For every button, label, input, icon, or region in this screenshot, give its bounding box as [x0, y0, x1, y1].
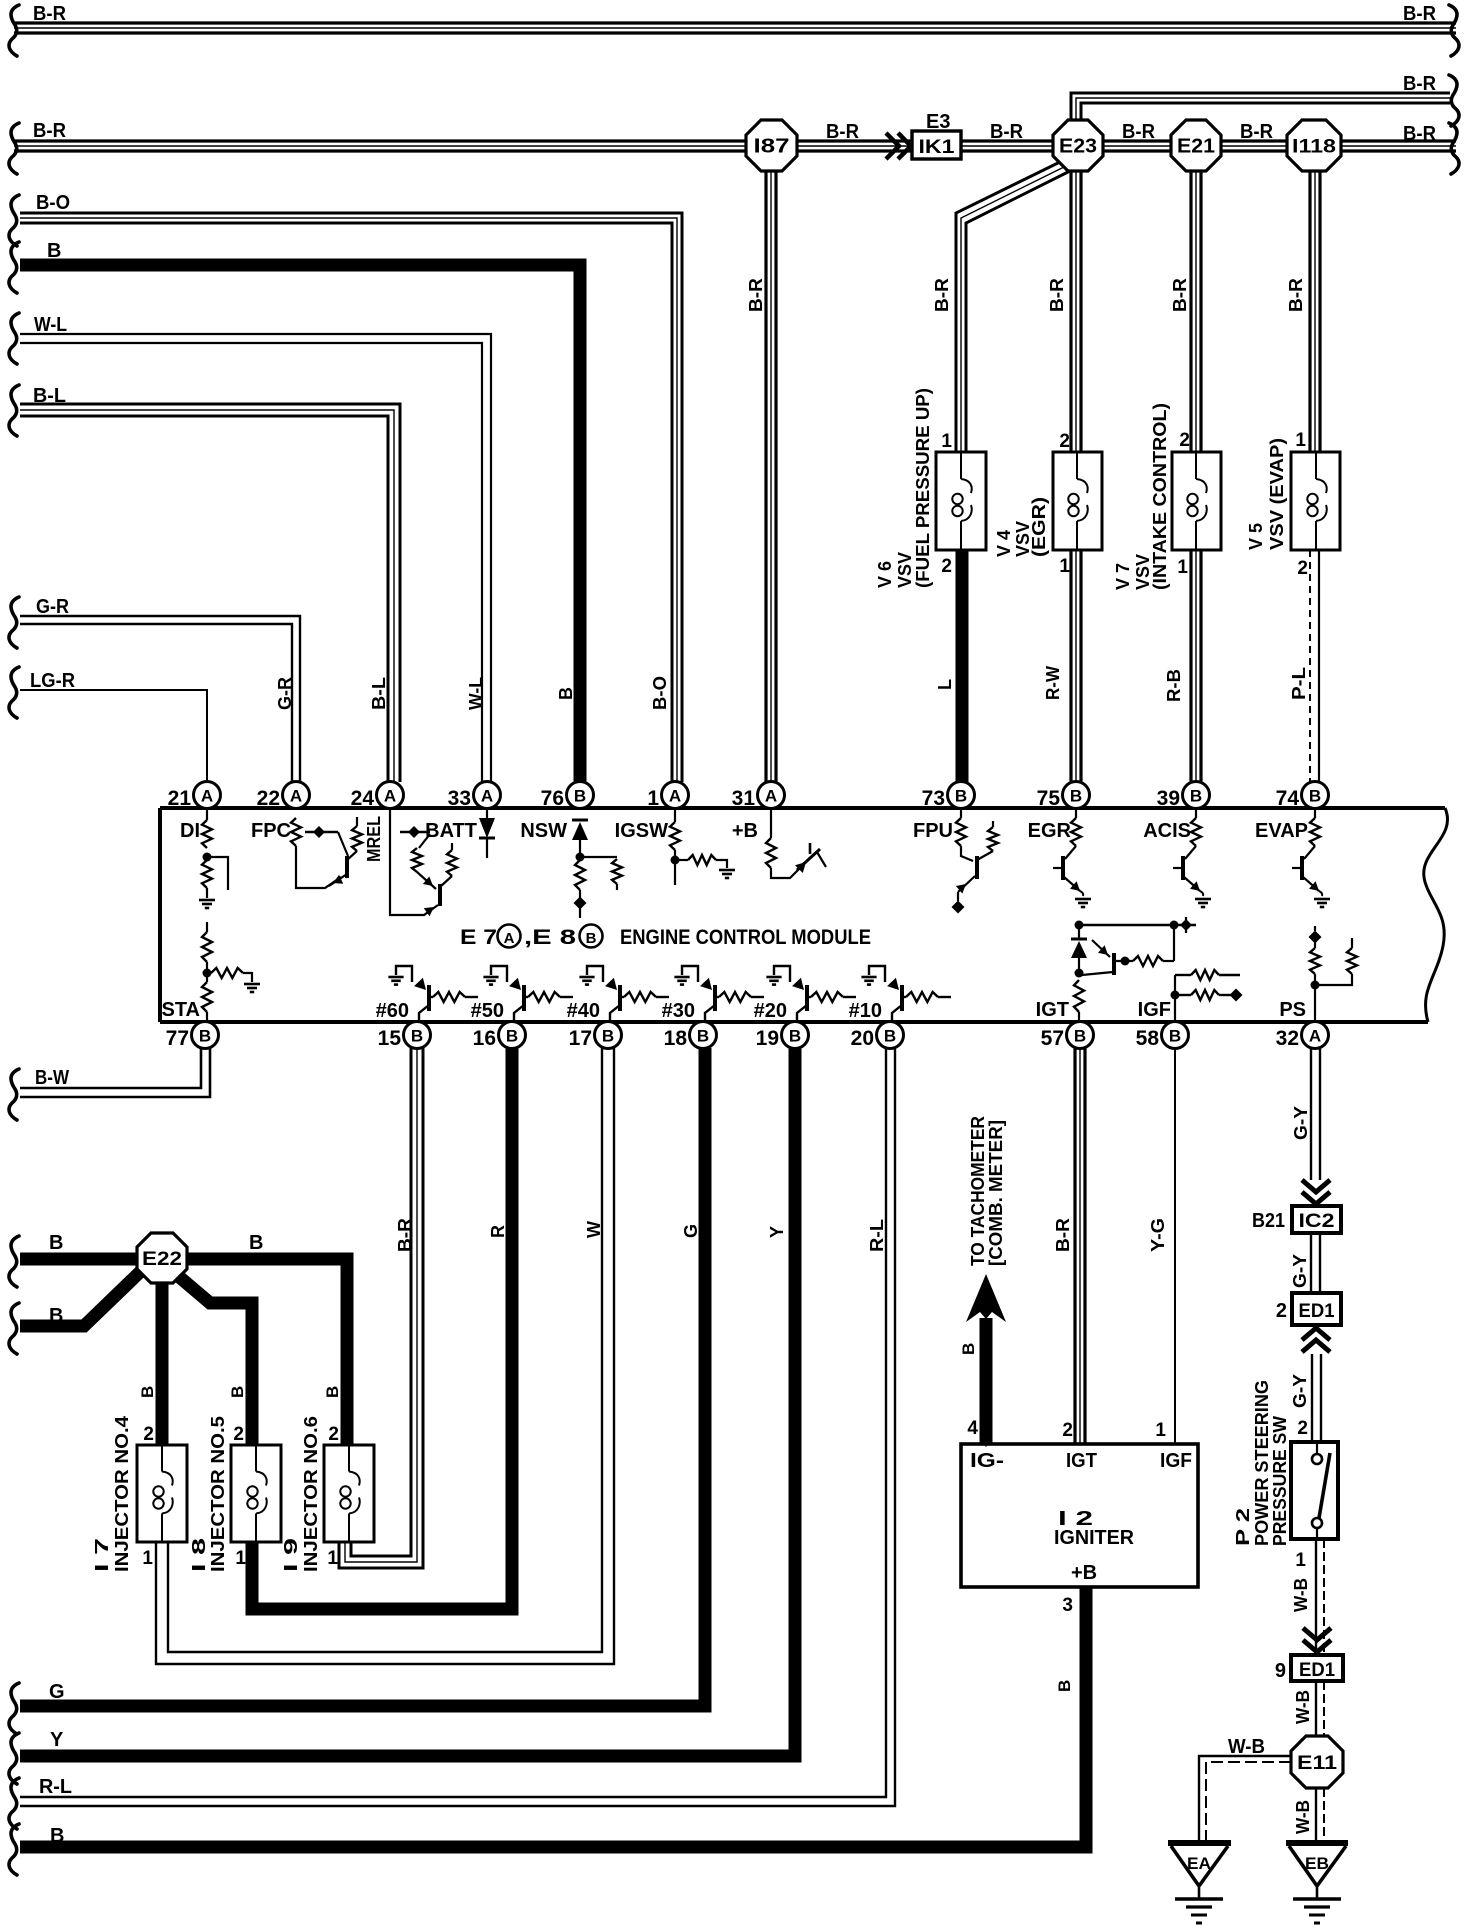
wire B from E22 down to injector no4 — [156, 1282, 169, 1445]
VSV V7 box (intake control) — [1172, 452, 1221, 550]
svg-text:58: 58 — [1136, 1027, 1160, 1050]
wire B from E22 to injector no6 — [184, 1259, 347, 1445]
wire B bottom to igniter pin3 — [20, 1588, 1086, 1847]
svg-text:B-R: B-R — [1122, 121, 1156, 143]
svg-text:B-W: B-W — [35, 1067, 69, 1089]
wire IG- stub inside — [985, 1444, 987, 1447]
svg-text:B: B — [789, 1027, 801, 1046]
svg-text:B-R: B-R — [33, 3, 67, 25]
svg-text:B-R: B-R — [1240, 121, 1274, 143]
svg-text:B-R: B-R — [746, 278, 766, 312]
svg-text:1: 1 — [142, 1548, 153, 1569]
injector no5 box I8 — [231, 1445, 281, 1542]
svg-text:B-R: B-R — [1170, 278, 1190, 312]
svg-text:W-B: W-B — [1228, 1736, 1265, 1758]
svg-text:B: B — [1070, 787, 1082, 806]
ECM torn right edge — [1424, 808, 1448, 1022]
svg-text:16: 16 — [473, 1027, 496, 1050]
ECM MREL resistor — [352, 826, 362, 851]
wire G pin18 to bottom left — [20, 1048, 705, 1706]
brace B-W — [9, 1069, 19, 1120]
connector E11 — [1291, 1736, 1343, 1788]
wire B-R drop E23 to V4 — [1069, 168, 1072, 452]
wire W pin17 to injector no4 — [156, 1048, 614, 1664]
svg-text:ACIS: ACIS — [1143, 820, 1191, 842]
svg-text:22: 22 — [257, 787, 280, 810]
svg-text:G-R: G-R — [275, 677, 295, 710]
svg-text:B: B — [228, 1386, 247, 1398]
ECM pin 22 (A) top — [283, 782, 310, 809]
svg-text:B-L: B-L — [33, 385, 66, 407]
wire B to E22 left — [20, 1253, 140, 1266]
ground point EA — [1168, 1840, 1231, 1846]
VSV V7 coil — [1195, 452, 1197, 479]
wire G-R — [20, 616, 300, 782]
svg-text:I 8: I 8 — [189, 1538, 209, 1572]
VSV V5 coil — [1315, 452, 1317, 479]
svg-text:#40: #40 — [567, 1000, 600, 1022]
svg-text:BATT: BATT — [425, 820, 477, 842]
svg-text:P 2: P 2 — [1233, 1508, 1253, 1546]
svg-text:R-B: R-B — [1164, 669, 1184, 702]
svg-text:EVAP: EVAP — [1255, 820, 1308, 842]
svg-text:B-R: B-R — [1286, 278, 1306, 312]
connector I87 — [746, 120, 797, 171]
ECM pin 21 (A) top — [194, 782, 221, 809]
chevron arrows to E3 — [886, 133, 899, 159]
svg-text:FPC: FPC — [251, 820, 291, 842]
ECM pin 58 (B) bottom — [1162, 1022, 1189, 1049]
wire B-W — [20, 1048, 201, 1088]
svg-text:INJECTOR NO.5: INJECTOR NO.5 — [208, 1416, 228, 1572]
svg-text:75: 75 — [1037, 787, 1061, 810]
svg-text:1: 1 — [1295, 1550, 1306, 1571]
wire B lower-left to E22 — [20, 1272, 140, 1326]
brace B E22 — [9, 1236, 19, 1287]
svg-text:W-B: W-B — [1291, 1578, 1311, 1612]
connector I118 — [1287, 120, 1341, 171]
wire Y pin19 to bottom left — [20, 1048, 795, 1756]
wire B-R pin15 to injector no6 — [339, 1048, 423, 1568]
svg-text:B-R: B-R — [1047, 278, 1067, 312]
svg-text:W-L: W-L — [34, 314, 67, 336]
wire Y-G pin58 to igniter IGF — [1174, 1048, 1176, 1444]
wire R-L pin20 to bottom left — [20, 1048, 886, 1797]
svg-text:39: 39 — [1157, 787, 1180, 810]
wire B-R upper right bus from E23 — [1071, 93, 1450, 122]
svg-text:IGT: IGT — [1036, 999, 1069, 1021]
connector E21 — [1171, 120, 1221, 171]
brace row right — [1449, 123, 1459, 174]
svg-text:B: B — [138, 1386, 157, 1398]
wire W-L — [20, 334, 491, 782]
brace bus1 left — [9, 5, 19, 56]
svg-text:E11: E11 — [1297, 1753, 1338, 1774]
svg-text:VSV: VSV — [895, 552, 915, 588]
svg-text:ED1: ED1 — [1299, 1301, 1335, 1322]
svg-text:B-R: B-R — [1053, 1218, 1073, 1252]
svg-text:B-R: B-R — [826, 121, 860, 143]
connector E22 — [137, 1233, 187, 1283]
svg-text:18: 18 — [664, 1027, 688, 1050]
ECM pin 19 (B) bottom — [782, 1022, 809, 1049]
svg-text:W-B: W-B — [1293, 1690, 1313, 1724]
svg-text:STA: STA — [161, 999, 200, 1021]
svg-text:B: B — [574, 787, 586, 806]
svg-text:A: A — [1309, 1027, 1321, 1046]
svg-text:#60: #60 — [376, 1000, 409, 1022]
svg-text:P-L: P-L — [1289, 667, 1309, 700]
svg-text:B: B — [249, 1232, 263, 1254]
svg-text:B: B — [199, 1027, 211, 1046]
svg-text:ENGINE CONTROL MODULE: ENGINE CONTROL MODULE — [620, 926, 871, 949]
svg-text:21: 21 — [168, 787, 192, 810]
brace B-L — [9, 385, 19, 436]
svg-text:Y-G: Y-G — [1148, 1218, 1168, 1252]
svg-text:[COMB. METER]: [COMB. METER] — [986, 1120, 1006, 1266]
svg-text:INJECTOR NO.6: INJECTOR NO.6 — [301, 1416, 321, 1572]
ECM box outline — [160, 806, 1445, 810]
connector box IC2 — [1292, 1206, 1341, 1233]
svg-text:B: B — [47, 240, 61, 262]
svg-text:B: B — [556, 687, 576, 700]
ECM pin 77 (B) bottom — [192, 1022, 219, 1049]
wire P-L V5 to pin 74 — [1309, 550, 1311, 782]
svg-text:74: 74 — [1276, 787, 1300, 810]
wire G-Y IC2 to ED1 — [1310, 1233, 1312, 1293]
svg-text:1: 1 — [1155, 1420, 1166, 1441]
svg-text:2: 2 — [1297, 558, 1308, 579]
svg-text:15: 15 — [378, 1027, 402, 1050]
svg-text:57: 57 — [1041, 1027, 1064, 1050]
ECM pin 76 (B) top — [567, 782, 594, 809]
brace LG-R — [9, 667, 19, 718]
svg-text:R-L: R-L — [867, 1219, 887, 1252]
svg-text:G: G — [49, 1681, 65, 1703]
svg-text:L: L — [935, 679, 955, 690]
svg-text:32: 32 — [1276, 1027, 1299, 1050]
connector box ED1 pin9 — [1291, 1655, 1343, 1681]
wire B from E22 diagonal to injector no5 — [177, 1275, 252, 1445]
svg-text:G-R: G-R — [36, 596, 69, 618]
svg-text:PRESSURE SW: PRESSURE SW — [1270, 1416, 1290, 1546]
svg-text:#50: #50 — [471, 1000, 504, 1022]
svg-text:#10: #10 — [849, 1000, 882, 1022]
injector no6 box I9 — [324, 1445, 374, 1542]
svg-text:W-L: W-L — [466, 677, 486, 710]
svg-text:1: 1 — [647, 787, 659, 810]
brace W-L — [9, 313, 19, 364]
svg-text:B: B — [1309, 787, 1321, 806]
wire B-R drop E21 to V7 — [1189, 168, 1192, 452]
wire G-Y pin32 down — [1310, 1048, 1312, 1180]
svg-text:B: B — [1190, 787, 1202, 806]
wire W-B switch to ED1 pin9 — [1315, 1539, 1317, 1655]
svg-text:IGSW: IGSW — [615, 820, 668, 842]
svg-text:ED1: ED1 — [1299, 1660, 1335, 1681]
igniter I2 box — [961, 1444, 1198, 1587]
FPC base feed with junction — [305, 831, 338, 833]
svg-text:B: B — [506, 1027, 518, 1046]
ECM pin 57 (B) bottom — [1067, 1022, 1094, 1049]
injector no4 box I7 — [137, 1445, 187, 1542]
wire B thick — [20, 265, 580, 782]
wire B-R pin57 to igniter IGT — [1073, 1048, 1076, 1444]
svg-text:2: 2 — [1062, 1420, 1073, 1441]
svg-text:R-W: R-W — [1043, 666, 1063, 700]
svg-text:R-L: R-L — [39, 1776, 72, 1798]
svg-text:B: B — [697, 1027, 709, 1046]
wire B-R drop I118 to V5 — [1308, 168, 1311, 452]
svg-text:IGNITER: IGNITER — [1054, 1527, 1135, 1549]
svg-text:B21: B21 — [1252, 1210, 1285, 1232]
svg-text:19: 19 — [756, 1027, 779, 1050]
brace B-O — [9, 195, 19, 246]
svg-text:LG-R: LG-R — [30, 670, 75, 692]
svg-text:G-Y: G-Y — [1290, 1254, 1310, 1288]
svg-text:V 4: V 4 — [994, 530, 1014, 557]
svg-text:(INTAKE CONTROL): (INTAKE CONTROL) — [1150, 403, 1170, 590]
ECM pin 18 (B) bottom — [690, 1022, 717, 1049]
svg-text:A: A — [765, 787, 777, 806]
ECM pin 32 (A) bottom — [1302, 1022, 1329, 1049]
VSV V6 coil — [960, 452, 962, 479]
svg-text:V 7: V 7 — [1113, 563, 1133, 590]
svg-text:B-R: B-R — [1403, 123, 1437, 145]
svg-text:2: 2 — [1276, 1300, 1287, 1322]
svg-text:#30: #30 — [662, 1000, 695, 1022]
brace row left — [9, 123, 19, 174]
svg-text:B: B — [411, 1027, 423, 1046]
VSV V6 box (fuel pressure up) — [936, 452, 986, 550]
svg-text:B: B — [1055, 1680, 1074, 1692]
svg-text:1: 1 — [941, 431, 952, 452]
svg-text:A: A — [669, 787, 681, 806]
svg-text:EB: EB — [1305, 1854, 1329, 1873]
svg-text:2: 2 — [1179, 430, 1190, 451]
brace B bottom — [9, 1824, 19, 1875]
svg-text:+B: +B — [1071, 1562, 1097, 1584]
svg-text:B-R: B-R — [990, 121, 1024, 143]
svg-text:B-R: B-R — [33, 120, 67, 142]
svg-text:33: 33 — [448, 787, 471, 810]
svg-text:1: 1 — [327, 1548, 338, 1569]
chevron arrows down to IC2 — [1302, 1180, 1330, 1192]
wire R-B V7 to pin 39 — [1189, 550, 1192, 782]
svg-text:B-R: B-R — [395, 1218, 415, 1252]
brace Y — [9, 1733, 19, 1784]
brace B lower — [9, 1303, 19, 1354]
svg-text:DI: DI — [180, 820, 200, 842]
svg-text:2: 2 — [1297, 1418, 1308, 1439]
svg-text:IC2: IC2 — [1299, 1211, 1335, 1232]
svg-text:31: 31 — [732, 787, 756, 810]
svg-text:A: A — [201, 787, 213, 806]
svg-text:B-R: B-R — [932, 278, 952, 312]
svg-text:I87: I87 — [754, 136, 790, 158]
svg-text:24: 24 — [351, 787, 375, 810]
wire G-Y ED1 to switch — [1311, 1354, 1313, 1442]
svg-text:A: A — [481, 787, 493, 806]
svg-text:IG-: IG- — [970, 1450, 1004, 1472]
brace B — [9, 242, 19, 293]
svg-text:2: 2 — [941, 556, 952, 577]
svg-text:4: 4 — [967, 1418, 978, 1439]
svg-text:V 5: V 5 — [1246, 523, 1266, 550]
svg-text:V 6: V 6 — [875, 561, 895, 588]
ECM pin 20 (B) bottom — [877, 1022, 904, 1049]
svg-text:I 9: I 9 — [281, 1538, 301, 1572]
svg-text:R: R — [488, 1225, 508, 1238]
brace bus1 right — [1449, 5, 1459, 56]
svg-text:IGT: IGT — [1066, 1450, 1097, 1472]
ECM pin33 diode — [486, 808, 488, 818]
svg-text:IGF: IGF — [1160, 1450, 1192, 1472]
svg-text:B: B — [959, 1343, 978, 1355]
svg-text:I118: I118 — [1292, 137, 1336, 158]
svg-text:VSV (EVAP): VSV (EVAP) — [1267, 438, 1287, 550]
svg-text:73: 73 — [922, 787, 945, 810]
svg-text:77: 77 — [166, 1027, 189, 1050]
svg-text:A: A — [384, 787, 396, 806]
svg-text:B: B — [1169, 1027, 1181, 1046]
wire B-R top bus 1 — [14, 21, 1456, 24]
ECM pin24 MREL supply wire — [390, 808, 438, 915]
svg-text:EGR: EGR — [1028, 820, 1072, 842]
ECM pin 75 (B) top — [1063, 782, 1090, 809]
svg-text:Y: Y — [767, 1226, 787, 1238]
ECM pin 16 (B) bottom — [499, 1022, 526, 1049]
svg-text:G: G — [681, 1224, 701, 1238]
svg-text:Y: Y — [50, 1729, 64, 1751]
svg-text:1: 1 — [1295, 430, 1306, 451]
svg-text:1: 1 — [1177, 557, 1188, 578]
svg-text:2: 2 — [328, 1424, 339, 1445]
connector box IK1 — [912, 131, 961, 159]
svg-text:17: 17 — [569, 1027, 592, 1050]
ECM pin 39 (B) top — [1183, 782, 1210, 809]
ECM pin 33 (A) top — [474, 782, 501, 809]
connector E23 — [1053, 120, 1103, 171]
wire B-L — [20, 404, 400, 782]
wire R-W V4 to pin 75 — [1069, 550, 1072, 782]
chevron arrows up below ED1 — [1302, 1340, 1330, 1352]
svg-text:B: B — [49, 1232, 63, 1254]
svg-text:B-L: B-L — [369, 677, 389, 710]
wire LG-R — [20, 690, 207, 782]
svg-text:B: B — [884, 1027, 896, 1046]
wire B-R drop from I87 to pin 31 — [764, 168, 767, 782]
ECM pin 15 (B) bottom — [404, 1022, 431, 1049]
wire R pin16 to injector no5 — [252, 1048, 512, 1609]
svg-text:3: 3 — [1062, 1595, 1073, 1616]
svg-text:FPU: FPU — [913, 820, 953, 842]
wire W-B E11 to EB — [1315, 1788, 1317, 1843]
svg-text:B-O: B-O — [650, 676, 670, 710]
svg-text:PS: PS — [1279, 999, 1306, 1021]
svg-text:,E 8: ,E 8 — [524, 926, 576, 949]
svg-text:EA: EA — [1187, 1854, 1211, 1873]
svg-text:B: B — [1074, 1027, 1086, 1046]
VSV V4 box (EGR) — [1053, 452, 1102, 550]
ECM pin 24 (A) top — [377, 782, 404, 809]
svg-text:A: A — [504, 930, 515, 947]
power steering pressure switch P2 box — [1291, 1442, 1338, 1539]
svg-text:B: B — [602, 1027, 614, 1046]
svg-text:B-R: B-R — [1403, 3, 1437, 25]
svg-text:E 7: E 7 — [460, 926, 497, 949]
svg-text:G-Y: G-Y — [1290, 1374, 1310, 1408]
svg-text:B: B — [955, 787, 967, 806]
svg-text:B: B — [323, 1386, 342, 1398]
svg-text:+B: +B — [732, 820, 758, 842]
ECM pin 1 (A) top — [662, 782, 689, 809]
svg-text:G-Y: G-Y — [1291, 1106, 1311, 1140]
chevron arrows down to ED1 pin9 — [1303, 1628, 1331, 1640]
svg-text:B: B — [586, 930, 597, 947]
ECM pin 74 (B) top — [1302, 782, 1329, 809]
svg-text:A: A — [290, 787, 302, 806]
VSV V4 coil — [1076, 452, 1078, 479]
ECM pin 31 (A) top — [758, 782, 785, 809]
svg-text:B: B — [49, 1305, 63, 1327]
svg-text:2: 2 — [1059, 431, 1070, 452]
svg-text:E23: E23 — [1059, 136, 1097, 158]
VSV V5 box (EVAP) — [1291, 452, 1340, 550]
svg-text:2: 2 — [143, 1424, 154, 1445]
svg-text:1: 1 — [235, 1548, 246, 1569]
svg-text:E22: E22 — [142, 1249, 182, 1270]
switch contacts and blade — [1316, 1442, 1318, 1454]
ECM pin 17 (B) bottom — [595, 1022, 622, 1049]
wire B-R connector row bus — [14, 139, 1456, 142]
svg-text:(FUEL PRESSURE UP): (FUEL PRESSURE UP) — [913, 388, 933, 588]
svg-text:(EGR): (EGR) — [1029, 497, 1049, 557]
wire B-R diagonal E23 to V6 — [956, 160, 1064, 452]
svg-text:INJECTOR NO.4: INJECTOR NO.4 — [112, 1416, 132, 1572]
svg-text:B-O: B-O — [36, 192, 70, 214]
wire W-B E11 left to EA — [1199, 1756, 1291, 1843]
wire L thick V6 to pin 73 — [956, 550, 969, 782]
connector box ED1 pin2 — [1292, 1293, 1341, 1325]
svg-text:9: 9 — [1275, 1660, 1286, 1682]
ground point EB — [1286, 1840, 1348, 1846]
svg-text:TO TACHOMETER: TO TACHOMETER — [968, 1116, 988, 1266]
brace upper right — [1449, 75, 1459, 126]
wire W-B ED1 to E11 — [1315, 1681, 1317, 1736]
svg-text:76: 76 — [541, 787, 564, 810]
brace R-L — [9, 1778, 19, 1829]
svg-text:I 7: I 7 — [92, 1538, 112, 1572]
svg-text:POWER STEERING: POWER STEERING — [1252, 1380, 1272, 1546]
svg-text:20: 20 — [851, 1027, 874, 1050]
svg-text:MREL: MREL — [364, 816, 384, 862]
svg-text:1: 1 — [1059, 556, 1070, 577]
svg-text:#20: #20 — [754, 1000, 787, 1022]
svg-text:IGF: IGF — [1138, 999, 1171, 1021]
brace G — [9, 1683, 19, 1734]
ECM pin 73 (B) top — [948, 782, 975, 809]
svg-text:NSW: NSW — [520, 820, 567, 842]
svg-text:W: W — [584, 1221, 604, 1238]
wire B-O — [20, 213, 682, 782]
svg-text:B-R: B-R — [1403, 73, 1437, 95]
svg-text:B: B — [50, 1825, 64, 1847]
brace G-R — [9, 597, 19, 648]
svg-text:E21: E21 — [1177, 136, 1215, 158]
wire B tachometer arrow — [980, 1318, 993, 1444]
svg-text:IK1: IK1 — [919, 137, 956, 158]
